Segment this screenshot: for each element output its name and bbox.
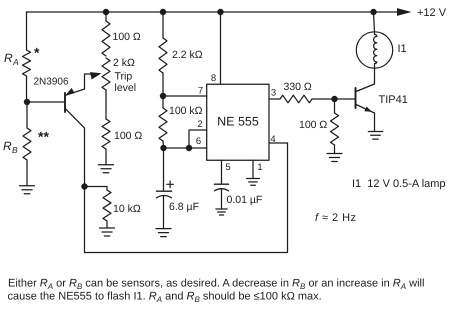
svg-text:6.8 µF: 6.8 µF bbox=[169, 201, 199, 213]
wire top rail to 100 ohm bbox=[105, 12, 107, 21]
svg-text:Either RA or RB can be sensors: Either RA or RB can be sensors, as desir… bbox=[8, 278, 424, 292]
wire 330 ohm to base node bbox=[312, 98, 356, 100]
wire pin 5 to 0.01uF bbox=[221, 160, 223, 183]
resistor 2.2 kohm bbox=[159, 38, 167, 73]
resistor 100 kohm bbox=[159, 108, 167, 141]
wire pin 4 stub bbox=[269, 142, 288, 144]
wire pin7 node to 100k bbox=[162, 96, 164, 108]
svg-text:TIP41: TIP41 bbox=[379, 94, 408, 106]
wire +12V top rail bbox=[27, 11, 401, 13]
svg-text:2: 2 bbox=[197, 119, 202, 130]
svg-text:f ≈ 2 Hz: f ≈ 2 Hz bbox=[315, 212, 356, 224]
wire pot to 100 ohm lower bbox=[105, 90, 107, 119]
resistor 100 ohm (base) bbox=[331, 113, 339, 145]
svg-text:2N3906: 2N3906 bbox=[34, 77, 69, 88]
svg-text:NE 555: NE 555 bbox=[217, 114, 259, 128]
node: Q1 collector / 10k / pin4 junction bbox=[81, 183, 87, 189]
node: TIP41 base junction bbox=[331, 96, 337, 102]
wire pin 6 bbox=[164, 147, 207, 149]
node: top rail / pot column junction bbox=[103, 9, 109, 15]
svg-text:*: * bbox=[34, 45, 40, 61]
wire pin 1 to ground bbox=[252, 160, 254, 178]
capacitor C1 6.8 uF bbox=[157, 191, 172, 228]
lamp I1 bbox=[356, 32, 392, 69]
svg-text:I1: I1 bbox=[398, 43, 407, 55]
wire bottom rail to pin 4 bbox=[85, 143, 288, 253]
ground under 10k bbox=[100, 227, 115, 229]
ground under 6.8uF bbox=[156, 228, 171, 230]
svg-text:I1 12 V 0.5-A lamp: I1 12 V 0.5-A lamp bbox=[352, 178, 446, 190]
potentiometer wiper arrow bbox=[90, 72, 102, 79]
resistor RB bbox=[23, 128, 31, 160]
wire collector node to bottom rail bbox=[84, 187, 86, 253]
op-amp U1 NE 555 box bbox=[207, 84, 269, 160]
capacitor C2 0.01 uF bbox=[215, 184, 229, 209]
wire 100k to pin2/6 node bbox=[162, 141, 165, 148]
wire top rail to lamp bbox=[374, 12, 375, 32]
ground under 100 ohm base bbox=[327, 153, 342, 155]
ground at pin 1 bbox=[247, 178, 260, 180]
wire base node to RB bbox=[26, 102, 28, 128]
svg-text:cause the NE555 to flash I1. R: cause the NE555 to flash I1. RA and RB s… bbox=[8, 291, 322, 305]
wire top rail to 2.2k bbox=[162, 12, 164, 38]
transistor Q2 TIP41 bbox=[356, 68, 375, 131]
svg-text:Trip: Trip bbox=[115, 71, 133, 83]
svg-text:10 kΩ: 10 kΩ bbox=[113, 203, 141, 215]
svg-text:100 Ω: 100 Ω bbox=[299, 119, 327, 131]
resistor 100 ohm (upper) bbox=[102, 21, 110, 56]
wire 2.2k to pin7 node bbox=[162, 73, 164, 96]
wire top rail to RA bbox=[26, 12, 28, 50]
svg-text:3: 3 bbox=[271, 88, 276, 99]
node: pin 2/6 tie junction bbox=[186, 145, 192, 151]
node: top rail / pin 8 junction bbox=[217, 9, 223, 15]
wire pin2/6 node to 6.8uF bbox=[163, 148, 165, 190]
ground under 0.01uF bbox=[216, 208, 227, 210]
svg-text:6: 6 bbox=[196, 136, 201, 147]
node: pin 7 junction bbox=[160, 93, 166, 99]
+12V supply arrow bbox=[397, 8, 412, 16]
wire pin 7 bbox=[163, 95, 207, 97]
svg-text:100 Ω: 100 Ω bbox=[114, 130, 142, 142]
node: pin 6 junction at 100k bbox=[160, 145, 166, 151]
wire collector node to 10k bbox=[85, 187, 108, 191]
wire RA to base node bbox=[26, 76, 28, 102]
wire 100 ohm to ground bbox=[334, 145, 336, 154]
resistor 10 kohm bbox=[103, 190, 111, 221]
svg-text:2.2 kΩ: 2.2 kΩ bbox=[172, 49, 203, 61]
svg-text:level: level bbox=[115, 82, 137, 94]
svg-text:2 kΩ: 2 kΩ bbox=[113, 57, 135, 69]
wire pin 8 bbox=[220, 12, 222, 84]
svg-text:100 kΩ: 100 kΩ bbox=[169, 105, 203, 117]
svg-text:B: B bbox=[12, 145, 18, 155]
node: top rail / 2.2k column junction bbox=[160, 9, 166, 15]
wire RB to ground bbox=[26, 160, 28, 186]
wire base node to 100 ohm bbox=[334, 99, 336, 113]
svg-text:**: ** bbox=[38, 129, 49, 145]
svg-text:0.01 µF: 0.01 µF bbox=[227, 194, 263, 206]
node A: RA/RB/base junction bbox=[24, 99, 30, 105]
ground at TIP41 emitter bbox=[368, 131, 382, 133]
svg-text:A: A bbox=[12, 57, 19, 67]
svg-text:7: 7 bbox=[198, 85, 203, 96]
plus sign for 6.8uF bbox=[167, 181, 174, 188]
svg-text:8: 8 bbox=[211, 73, 216, 84]
potentiometer 2k trip level bbox=[102, 58, 110, 90]
wire pin 3 stub bbox=[269, 98, 280, 100]
resistor 100 ohm (lower) bbox=[102, 119, 110, 149]
resistor RA bbox=[23, 50, 31, 76]
svg-text:+12 V: +12 V bbox=[417, 7, 447, 19]
transistor Q1 2N3906 bbox=[65, 74, 92, 187]
resistor 330 ohm bbox=[280, 95, 312, 103]
wire base node to Q1 base bbox=[27, 101, 65, 103]
svg-text:R: R bbox=[4, 51, 13, 65]
svg-text:1: 1 bbox=[257, 162, 262, 173]
svg-text:330 Ω: 330 Ω bbox=[284, 81, 312, 93]
svg-text:5: 5 bbox=[225, 162, 230, 173]
svg-text:R: R bbox=[3, 139, 12, 153]
wire 10k to ground bbox=[106, 221, 108, 228]
wire 100 ohm lower to ground bbox=[105, 149, 107, 165]
node: top rail / lamp junction bbox=[370, 9, 376, 15]
ground under 100 ohm lower bbox=[99, 164, 114, 166]
ground under RB bbox=[20, 185, 35, 187]
wire pin 2 to pin 6 tie bbox=[189, 130, 207, 148]
svg-text:100 Ω: 100 Ω bbox=[113, 31, 141, 43]
